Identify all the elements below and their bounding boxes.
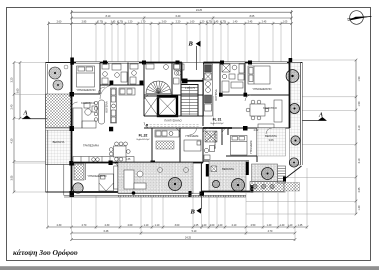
svg-text:κάτοψη 3ου Ορόφου: κάτοψη 3ου Ορόφου [13, 248, 78, 257]
svg-text:3.45: 3.45 [214, 21, 219, 24]
small bedroom FL32 right [179, 128, 181, 163]
svg-text:6.48: 6.48 [104, 230, 109, 233]
svg-text:2.60: 2.60 [57, 21, 62, 24]
entrance dot [132, 191, 136, 195]
bottom extension lines [48, 168, 308, 241]
columns left wall [70, 92, 75, 97]
roof edge over entry recess [182, 62, 204, 64]
FL31 south terrace [209, 161, 246, 192]
corridor walls below core [144, 115, 203, 117]
svg-text:(0.75): (0.75) [97, 21, 103, 24]
section marker B top [188, 41, 201, 71]
svg-text:2.20: 2.20 [176, 21, 181, 24]
svg-text:1.05 0.75: 1.05 0.75 [185, 87, 196, 90]
svg-text:2.45: 2.45 [262, 21, 267, 24]
svg-text:3.05: 3.05 [11, 175, 14, 180]
svg-text:ΥΠΝΟΔΩΜΑΤΙΟ: ΥΠΝΟΔΩΜΑΤΙΟ [76, 88, 95, 92]
svg-text:1.50: 1.50 [358, 101, 361, 106]
balcony bottom edge lines [64, 194, 246, 196]
chamfer corner + steps [285, 166, 302, 179]
platform hatch SE [252, 164, 278, 182]
bath suite FL32 walls [100, 84, 144, 86]
svg-text:1.10: 1.10 [155, 224, 160, 227]
svg-text:FL.32: FL.32 [139, 134, 148, 138]
bottom walkway hatch [250, 182, 300, 192]
svg-text:1.40: 1.40 [267, 224, 272, 227]
svg-text:2.60: 2.60 [162, 21, 167, 24]
tree R2 [290, 104, 300, 114]
svg-text:1.10: 1.10 [144, 224, 149, 227]
svg-text:1.45: 1.45 [298, 224, 303, 227]
couch FL32 living [73, 103, 97, 128]
dim row 3 small [49, 23, 292, 25]
bottom wall FL31 [201, 191, 250, 193]
kitchen base counter along wall [73, 157, 134, 163]
shrubs bottom balcony [158, 168, 163, 173]
svg-text:ΚΟΥΖΙΝΑ: ΚΟΥΖΙΝΑ [105, 101, 109, 112]
svg-text:Εμβ=145.9μ²: Εμβ=145.9μ² [137, 138, 150, 141]
svg-text:B: B [190, 209, 196, 216]
elevator U [158, 97, 177, 117]
wall right FL31 [289, 63, 291, 129]
right balcony parapet top [292, 62, 303, 64]
wall under living [72, 162, 204, 164]
svg-text:2.30: 2.30 [105, 224, 110, 227]
stairwell [181, 85, 198, 117]
svg-text:2.50: 2.50 [251, 224, 256, 227]
kitchen FL32 bar + stools [94, 88, 116, 124]
bath FL31 top right [219, 63, 221, 96]
dining table FL32 [109, 142, 130, 161]
svg-text:B: B [188, 41, 194, 48]
svg-text:1.30: 1.30 [358, 205, 361, 210]
FL31 terrace [257, 128, 286, 156]
bedroom TL walls [99, 63, 101, 95]
spiral stair FL32 [146, 81, 171, 94]
storage X room left of elevator [144, 97, 158, 117]
svg-text:2.85: 2.85 [82, 21, 87, 24]
svg-text:2.10: 2.10 [232, 224, 237, 227]
svg-text:4.70: 4.70 [268, 230, 273, 233]
svg-text:1.20: 1.20 [128, 21, 133, 24]
svg-text:ΚΟΥΖΙΝΑ: ΚΟΥΖΙΝΑ [214, 89, 218, 100]
svg-text:3.10: 3.10 [358, 125, 361, 130]
kitchen strip FL32 hall [155, 130, 179, 137]
tree R4 [289, 158, 298, 167]
svg-text:ΠΛΑΤΥΣΚΑΛΟ: ΠΛΑΤΥΣΚΑΛΟ [164, 119, 181, 123]
left wall [71, 63, 73, 193]
tree bottom balcony [169, 178, 182, 191]
tree terrace [262, 168, 274, 180]
bed TL [77, 66, 95, 87]
bedroom BL [117, 163, 119, 193]
svg-text:24.25: 24.25 [185, 237, 192, 240]
dim row 2 [72, 17, 292, 19]
north arrow [347, 11, 372, 25]
FL32 label [137, 134, 150, 142]
tree R3 [291, 136, 300, 145]
columns on top wall [70, 58, 74, 65]
living FL32: kitchen counters top [119, 88, 135, 95]
section marker A left [22, 111, 48, 119]
svg-text:1.70: 1.70 [141, 21, 146, 24]
top-left balcony parapet [46, 62, 72, 64]
svg-text:4.30: 4.30 [11, 138, 14, 143]
top extension lines [49, 16, 282, 63]
svg-text:3.20: 3.20 [11, 77, 14, 82]
bath suite fixtures [102, 64, 138, 84]
svg-text:5.60: 5.60 [17, 88, 20, 93]
svg-text:1.20: 1.20 [202, 224, 207, 227]
tree S1 [212, 180, 219, 187]
svg-text:2.70: 2.70 [82, 224, 87, 227]
FL31 couch right [258, 100, 282, 130]
svg-text:1.25: 1.25 [194, 224, 199, 227]
svg-text:2.45: 2.45 [248, 21, 253, 24]
svg-text:ΥΠΝΟΔΩΜ.: ΥΠΝΟΔΩΜ. [249, 140, 253, 154]
FL31 label [211, 118, 224, 126]
svg-text:1.10: 1.10 [288, 224, 293, 227]
FL31 living dining [246, 100, 269, 120]
left paving hatch square [46, 94, 72, 195]
windows on top wall [76, 61, 287, 63]
svg-text:FL 31: FL 31 [213, 118, 222, 122]
svg-text:3.06: 3.06 [268, 138, 274, 142]
kitchen FL31 tall counter [204, 64, 213, 116]
bottom centre balcony hatch [118, 163, 193, 194]
corridor dashed [146, 125, 200, 127]
section marker B bottom [190, 196, 202, 216]
tree R1 [286, 70, 299, 83]
tree S2 [232, 179, 245, 192]
svg-text:2.00: 2.00 [210, 224, 215, 227]
svg-text:ΒΕΡΑΝΤΑ: ΒΕΡΑΝΤΑ [222, 167, 234, 171]
svg-text:2.02: 2.02 [254, 129, 259, 132]
svg-text:1.20: 1.20 [200, 21, 205, 24]
svg-text:3.00: 3.00 [175, 224, 180, 227]
svg-text:ΥΠΝΟΔΩΜΑΤΙΟ: ΥΠΝΟΔΩΜΑΤΙΟ [252, 87, 271, 91]
svg-text:8.10: 8.10 [106, 15, 111, 18]
svg-text:ΤΡΑΠΕΖΑΡΙΑ: ΤΡΑΠΕΖΑΡΙΑ [83, 144, 99, 148]
tree TL2 [53, 80, 63, 90]
wc fixtures FL32 [146, 64, 154, 69]
svg-text:ΚΑΘΙΣΤΙΚΟ: ΚΑΘΙΣΤΙΚΟ [81, 101, 95, 105]
svg-text:1.05: 1.05 [283, 21, 288, 24]
wardrobe right of bed [114, 166, 118, 189]
svg-text:2.30: 2.30 [57, 224, 62, 227]
columns interior wall [110, 81, 114, 86]
left veranda parapet [45, 94, 47, 192]
bedroom FL31 lower [231, 136, 248, 156]
svg-text:1.50: 1.50 [358, 76, 361, 81]
right parapet [301, 63, 303, 166]
svg-text:ΚΑΘΙΣΤΙΚΟ: ΚΑΘΙΣΤΙΚΟ [263, 106, 277, 110]
bedroom FL31 top [248, 66, 270, 84]
tree TL1 [49, 67, 61, 79]
svg-text:ΒΕΡΑΝΤΑ: ΒΕΡΑΝΤΑ [53, 140, 65, 144]
shrub TL [64, 65, 68, 69]
svg-text:24.25: 24.25 [196, 9, 203, 12]
svg-text:5.10: 5.10 [192, 230, 197, 233]
dim row overall 24.25 [72, 11, 292, 13]
right balcony strip hatch [290, 63, 301, 166]
svg-text:1.35: 1.35 [126, 158, 131, 161]
svg-text:1.40: 1.40 [233, 21, 238, 24]
svg-text:2.40: 2.40 [11, 104, 14, 109]
entry recess wall [182, 80, 204, 82]
svg-text:2.00: 2.00 [128, 224, 133, 227]
svg-text:ΒΕΡΑΝΤΑ: ΒΕΡΑΝΤΑ [265, 134, 277, 138]
svg-text:1.40: 1.40 [280, 224, 285, 227]
door arc bedroom TL [100, 85, 114, 99]
planter strip left of bedroom [73, 163, 86, 194]
door arcs [98, 87, 105, 94]
svg-text:3.45: 3.45 [111, 21, 116, 24]
FL31 bottom wall [203, 127, 232, 129]
svg-text:6.40: 6.40 [176, 15, 181, 18]
svg-text:1.60: 1.60 [190, 21, 195, 24]
svg-text:Εμβ=103.9μ²: Εμβ=103.9μ² [211, 122, 224, 125]
bath FL31 lower [221, 128, 223, 145]
svg-text:3.10: 3.10 [358, 158, 361, 163]
svg-text:ΥΠΝΟΔΩΜΑΤΙΟ: ΥΠΝΟΔΩΜΑΤΙΟ [87, 174, 106, 178]
svg-text:8.05: 8.05 [250, 15, 255, 18]
section marker A right [303, 113, 327, 121]
top wall [72, 62, 183, 64]
svg-text:1.20: 1.20 [218, 224, 223, 227]
svg-text:2.05: 2.05 [358, 187, 361, 192]
couch on balcony [124, 170, 146, 189]
landing above stairs [180, 63, 182, 96]
bottom window grey strip [0, 266, 379, 270]
